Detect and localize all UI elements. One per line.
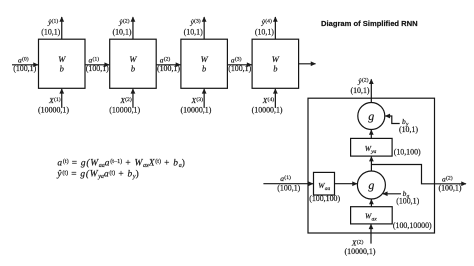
svg-text:(100,10000): (100,10000): [393, 221, 432, 230]
svg-text:ŷ(3): ŷ(3): [189, 18, 200, 27]
svg-text:ŷ(2): ŷ(2): [357, 77, 368, 86]
svg-text:X(2): X(2): [351, 238, 364, 247]
svg-text:(100,1): (100,1): [438, 183, 461, 192]
svg-text:(100,100): (100,100): [309, 194, 340, 203]
svg-text:a(1): a(1): [280, 174, 291, 183]
wire by elbow: [385, 116, 399, 124]
svg-text:X(1): X(1): [48, 96, 61, 105]
svg-text:(100,1): (100,1): [13, 64, 36, 73]
svg-text:(100,1): (100,1): [277, 184, 300, 193]
svg-text:Wya: Wya: [365, 144, 377, 155]
activation circle g (state): [357, 171, 385, 199]
svg-text:(10,1): (10,1): [399, 125, 418, 134]
wire Waa to g state: [335, 183, 358, 185]
wire ba in: [383, 193, 401, 195]
svg-text:ŷ(1): ŷ(1): [47, 18, 58, 27]
svg-text:g: g: [368, 109, 374, 123]
svg-text:(10000,1): (10000,1): [38, 105, 69, 114]
wire output of cell 4: [299, 63, 316, 65]
wire a(1): [85, 64, 109, 66]
label a(2): [157, 56, 180, 74]
svg-text:Diagram of Simplified RNN: Diagram of Simplified RNN: [321, 19, 418, 28]
detail outer box: [308, 98, 435, 233]
wire yhat(2) detail out: [370, 79, 372, 102]
svg-text:a(t) = g(Waaa(t–1) + WaxX(t) +: a(t) = g(Waaa(t–1) + WaxX(t) + ba): [57, 157, 185, 169]
cell box W,b #2: [110, 39, 157, 88]
svg-text:(10000,1): (10000,1): [252, 105, 283, 114]
svg-text:X(2): X(2): [119, 96, 132, 105]
label yhat(1): [41, 18, 60, 37]
label yhat(4): [255, 18, 274, 37]
equation 2: [56, 169, 139, 181]
svg-text:X(3): X(3): [191, 96, 204, 105]
svg-text:(10,100): (10,100): [394, 147, 421, 156]
svg-text:g: g: [368, 178, 374, 192]
svg-text:ŷ(4): ŷ(4): [261, 18, 272, 27]
svg-text:(10,1): (10,1): [184, 27, 203, 36]
svg-text:(100,1): (100,1): [157, 64, 180, 73]
equation 1: [57, 157, 185, 169]
wire a(2) detail out: [371, 165, 466, 184]
wire a(2): [156, 64, 180, 66]
svg-text:(100,1): (100,1): [228, 64, 251, 73]
svg-text:W: W: [58, 54, 66, 64]
svg-text:(100,1): (100,1): [396, 196, 419, 205]
label X(2) detail: [345, 238, 376, 256]
svg-text:(10,1): (10,1): [350, 86, 369, 95]
svg-text:b: b: [202, 64, 206, 74]
svg-text:(10,1): (10,1): [255, 27, 274, 36]
svg-text:b: b: [273, 64, 277, 74]
wire Wya to g output: [370, 130, 372, 138]
wire X(3) in: [203, 89, 205, 108]
svg-text:b: b: [60, 64, 64, 74]
svg-text:Wax: Wax: [365, 212, 377, 223]
svg-text:W: W: [272, 54, 280, 64]
weight box Wax: [351, 207, 393, 224]
weight box Waa: [314, 172, 335, 195]
label a(0): [13, 56, 36, 74]
label W b cell 1: [58, 54, 66, 74]
label X(2): [109, 96, 140, 114]
label by: [399, 117, 418, 134]
label a(2) detail: [438, 174, 461, 192]
label yhat(2) detail: [350, 77, 369, 95]
wire X(2) in: [132, 89, 134, 108]
label W b cell 2: [129, 54, 137, 74]
svg-text:(10,1): (10,1): [112, 27, 131, 36]
wire a(1) detail in: [263, 183, 313, 185]
svg-text:ŷ(t) = g(Wyaa(t) + by): ŷ(t) = g(Wyaa(t) + by): [56, 169, 139, 181]
wire yhat(1) out: [61, 17, 63, 39]
svg-text:(10,1): (10,1): [41, 27, 60, 36]
weight box Wya: [351, 138, 393, 156]
wire X(2) detail in: [370, 224, 372, 243]
wire a(3): [227, 64, 251, 66]
wire yhat(4) out: [274, 17, 276, 39]
label yhat(2): [112, 18, 131, 37]
label dims (100,100): [309, 194, 340, 203]
label a(1) detail: [277, 174, 300, 193]
cell box W,b #3: [181, 39, 228, 88]
svg-text:b: b: [131, 64, 135, 74]
activation circle g (output): [358, 103, 385, 130]
svg-text:(10000,1): (10000,1): [345, 247, 376, 256]
svg-text:(10000,1): (10000,1): [180, 105, 211, 114]
wire X(1) in: [61, 89, 63, 108]
label yhat(3): [184, 18, 203, 37]
svg-text:W: W: [201, 54, 209, 64]
wire g state to Wya: [370, 157, 372, 171]
svg-text:(100,1): (100,1): [86, 64, 109, 73]
svg-text:W: W: [129, 54, 137, 64]
label ba: [396, 189, 419, 205]
label dims (100,10000): [393, 221, 432, 230]
svg-text:a(2): a(2): [442, 174, 453, 183]
svg-text:X(4): X(4): [262, 96, 275, 105]
label a(3): [228, 56, 251, 74]
svg-text:ŷ(2): ŷ(2): [118, 18, 129, 27]
label X(1): [38, 96, 69, 114]
wire yhat(2) out: [132, 17, 134, 39]
label a(1): [86, 56, 109, 74]
cell box W,b #4: [252, 39, 299, 88]
svg-text:(10000,1): (10000,1): [109, 105, 140, 114]
label dims (10,100): [394, 147, 421, 156]
wire yhat(3) out: [203, 17, 205, 39]
wire Wax to g state: [370, 200, 372, 207]
cell box W,b #1: [39, 39, 86, 88]
label X(3): [180, 96, 211, 114]
svg-text:Waa: Waa: [318, 181, 330, 192]
wire X(4) in: [274, 89, 276, 108]
label W b cell 3: [201, 54, 209, 74]
label W b cell 4: [272, 54, 280, 74]
label X(4): [252, 96, 283, 114]
wire a(0) input: [12, 64, 38, 66]
